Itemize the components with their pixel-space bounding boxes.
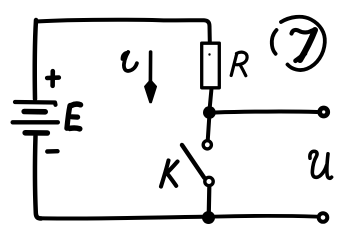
terminal: top right (open circle) bbox=[320, 108, 328, 116]
label K: switch designator bbox=[161, 161, 178, 187]
battery E: minus sign bbox=[47, 149, 57, 154]
badge: digit 7 bbox=[292, 30, 316, 61]
wire: resistor bottom to top node bbox=[210, 89, 212, 108]
node: top junction dot bbox=[203, 106, 216, 119]
wire: top node to right terminal bbox=[216, 110, 318, 115]
badge: circled 7 (hand-drawn circle) bbox=[272, 17, 325, 70]
battery E: plate 2 (short thick) bbox=[24, 109, 45, 115]
resistor R: body bbox=[202, 43, 220, 88]
wire: left vertical lower, battery - plate to bottom corner bbox=[35, 136, 41, 219]
battery E: label E (bold hand-drawn) bbox=[67, 104, 81, 129]
switch K: lower pivot contact circle bbox=[205, 177, 213, 185]
wire: left vertical from top corner down to battery + plate bbox=[35, 20, 36, 99]
battery E: plate 4 (short thick) bbox=[25, 130, 47, 136]
battery E: plate 3 (long) bbox=[13, 120, 58, 124]
battery E: plus sign bbox=[47, 71, 59, 86]
wire: top horizontal from battery to resistor branch bbox=[36, 20, 210, 42]
wire: bottom horizontal from battery to bottom node bbox=[40, 217, 203, 219]
label u: output voltage (script u) bbox=[310, 151, 332, 178]
wire: top node down to switch fixed contact bbox=[208, 118, 209, 140]
node: bottom junction dot bbox=[202, 211, 215, 224]
wire: bottom node to right terminal bbox=[214, 214, 317, 218]
terminal: bottom right (open circle) bbox=[319, 213, 328, 222]
battery E: plate 1 (long, top) bbox=[15, 102, 56, 105]
current arrow (downward) bbox=[149, 52, 153, 84]
switch K: blade (open, angled up-left) bbox=[182, 145, 204, 178]
label i: current symbol (script iota) bbox=[124, 52, 137, 71]
wire: switch pivot down to bottom node bbox=[207, 188, 212, 213]
resistor R: value label R bbox=[231, 52, 247, 76]
switch K: upper fixed contact circle bbox=[203, 141, 211, 149]
